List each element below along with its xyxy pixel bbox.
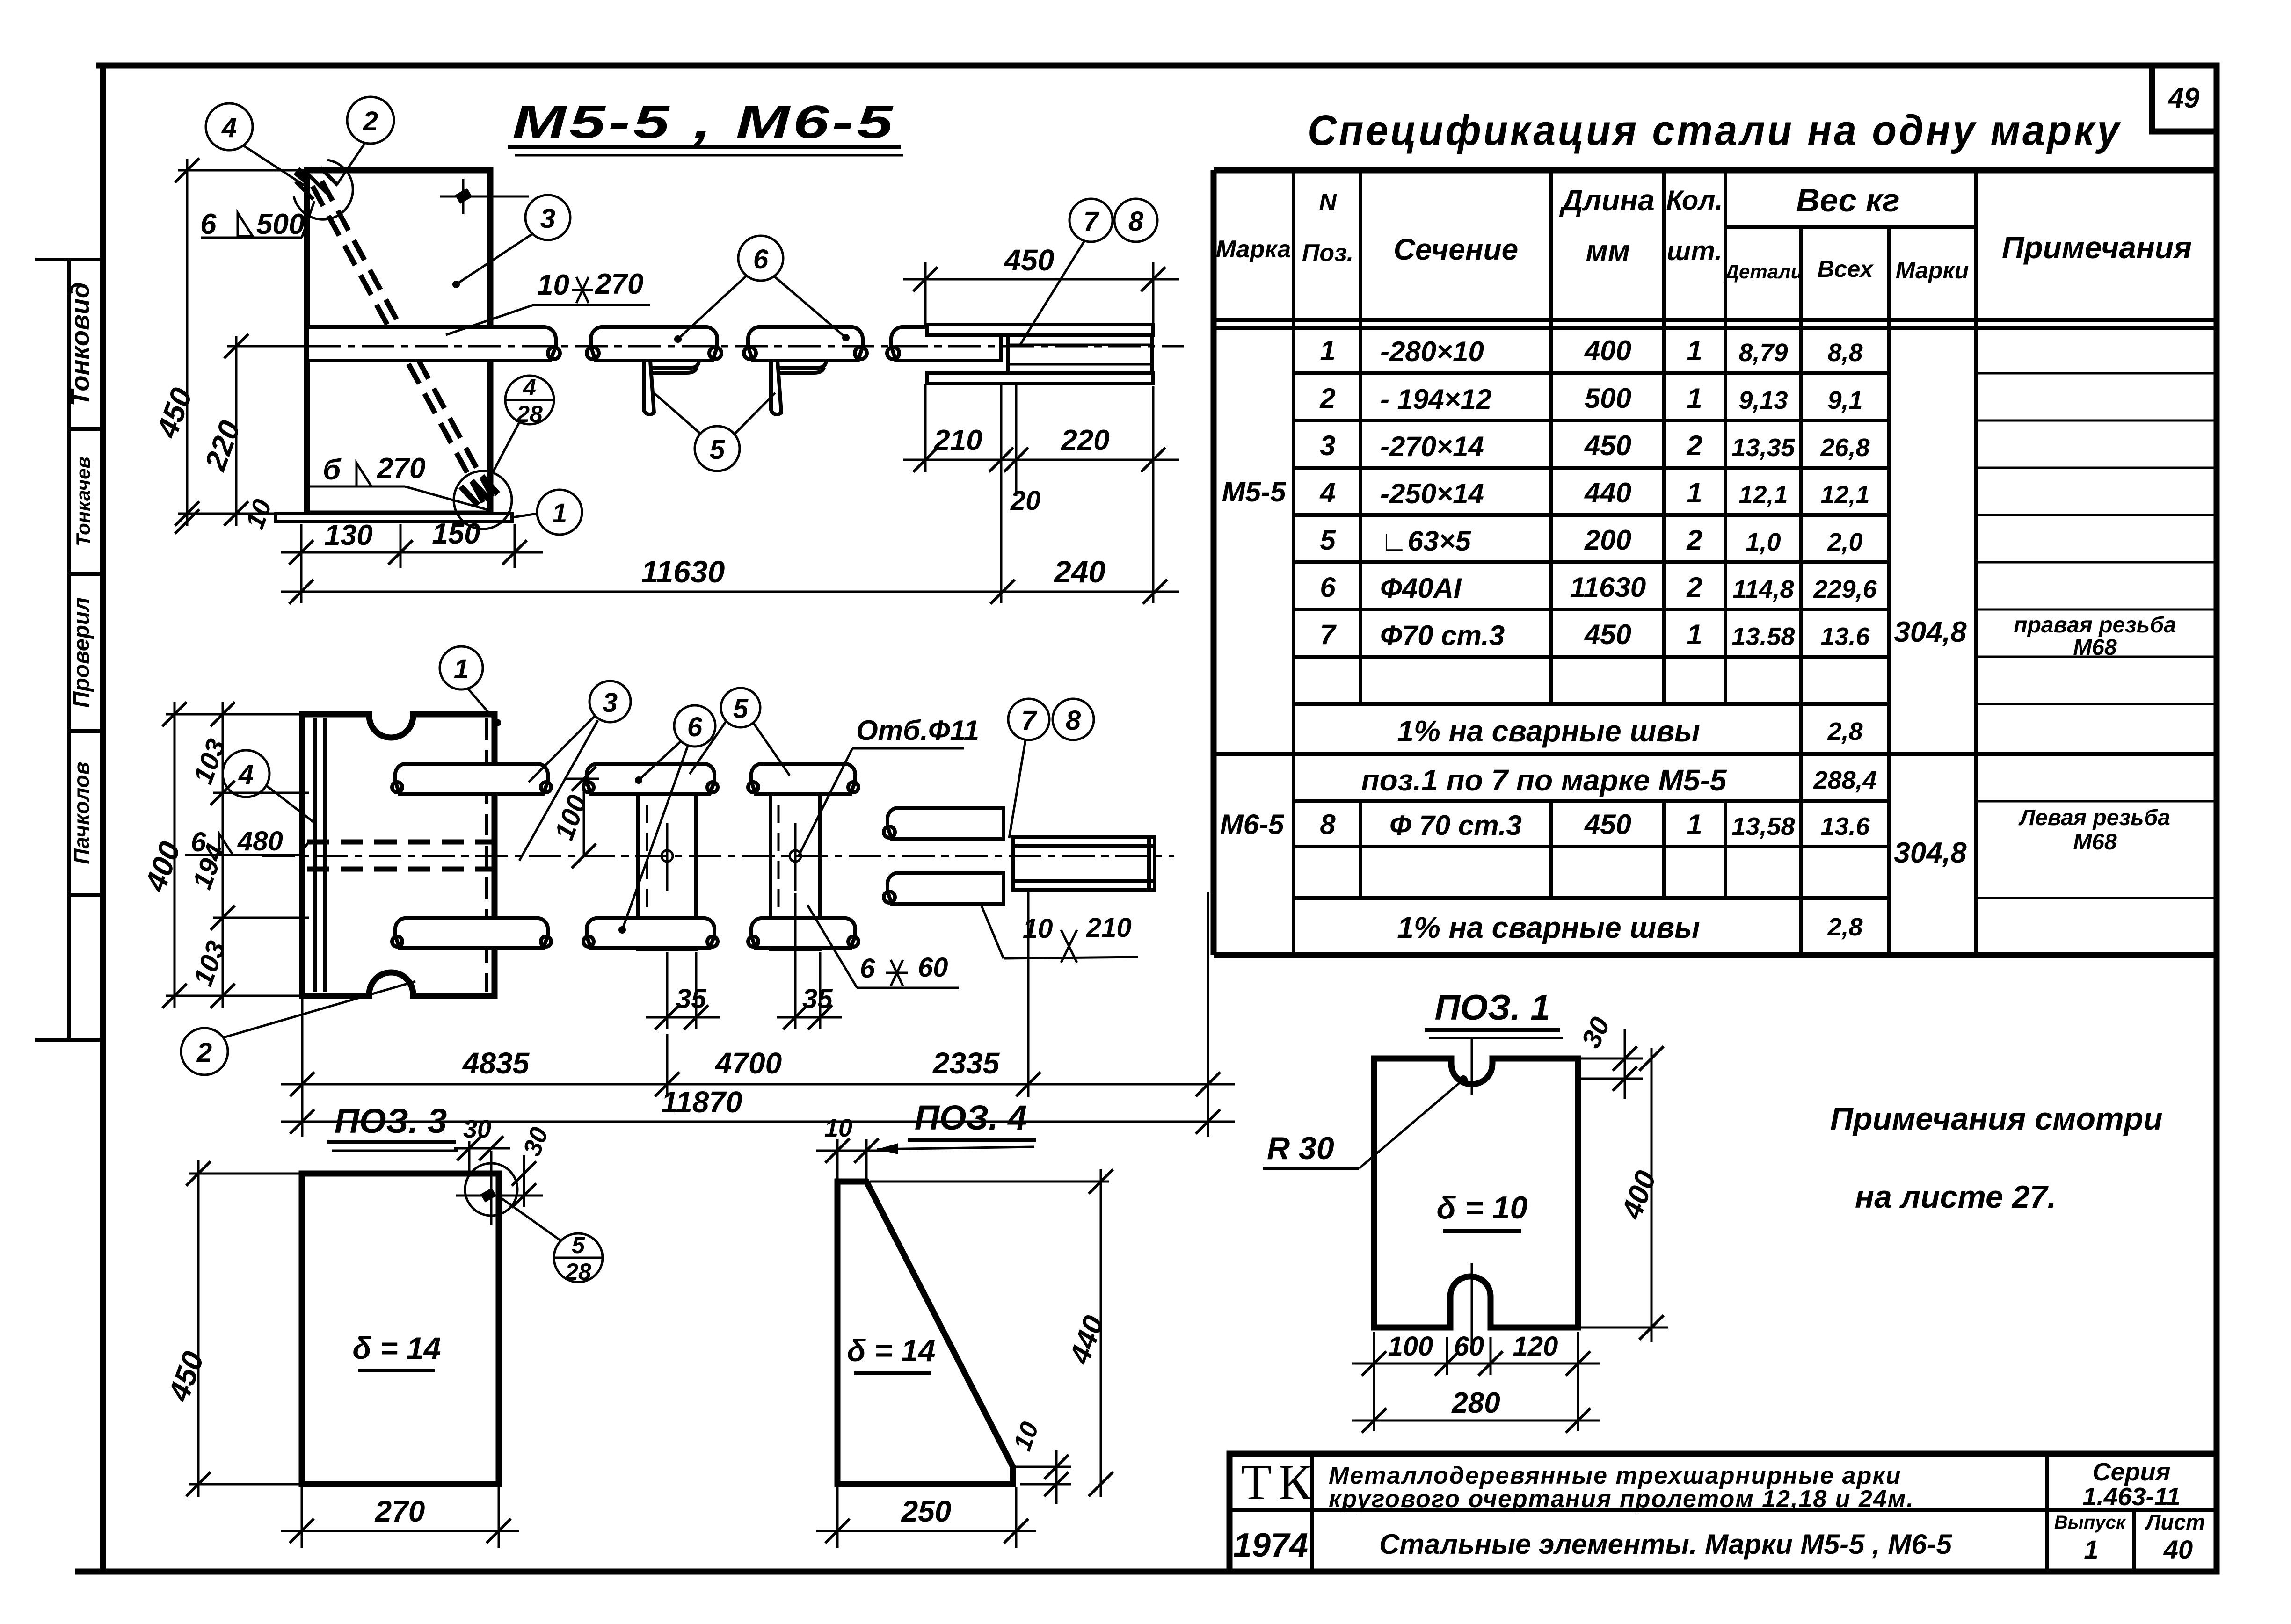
svg-text:δ = 14: δ = 14 bbox=[353, 1331, 441, 1365]
svg-text:8,8: 8,8 bbox=[1827, 339, 1862, 367]
svg-text:6: 6 bbox=[200, 208, 217, 240]
svg-text:8: 8 bbox=[1066, 705, 1081, 736]
svg-text:2: 2 bbox=[1686, 430, 1702, 461]
top view: dim 450 left bbox=[150, 158, 304, 526]
svg-text:10: 10 bbox=[537, 269, 569, 301]
poz.4 delta label bbox=[847, 1333, 936, 1373]
svg-text:Лист: Лист bbox=[2145, 1510, 2205, 1534]
svg-text:240: 240 bbox=[1053, 554, 1105, 589]
svg-text:210: 210 bbox=[1086, 913, 1132, 943]
svg-text:1: 1 bbox=[1687, 619, 1702, 650]
svg-text:49: 49 bbox=[2168, 82, 2200, 114]
page number box 49 bbox=[2152, 65, 2217, 131]
svg-text:Пачколов: Пачколов bbox=[69, 761, 94, 864]
svg-text:δ = 14: δ = 14 bbox=[847, 1333, 936, 1368]
svg-text:2: 2 bbox=[363, 106, 378, 137]
svg-text:6: 6 bbox=[1320, 572, 1336, 603]
plan view: dim 11870 bbox=[281, 1085, 1235, 1134]
svg-text:220: 220 bbox=[198, 416, 247, 475]
svg-text:450: 450 bbox=[161, 1347, 211, 1406]
svg-text:35: 35 bbox=[676, 984, 706, 1014]
svg-text:ПОЗ. 3: ПОЗ. 3 bbox=[335, 1102, 447, 1140]
svg-text:Спецификация стали на одну: Спецификация стали на одну марку bbox=[1308, 107, 2122, 154]
plan view: bottom dims 4835 4700 2335 bbox=[281, 892, 1235, 1137]
svg-text:6: 6 bbox=[860, 953, 875, 984]
svg-text:13.6: 13.6 bbox=[1820, 812, 1870, 841]
svg-text:6: 6 bbox=[753, 244, 769, 275]
plan view: hidden lines near axis bbox=[307, 842, 492, 869]
top view: weld label 6-500 bbox=[200, 201, 314, 240]
top view: balloon 5 bbox=[652, 391, 775, 471]
poz.1 delta label bbox=[1437, 1190, 1528, 1231]
svg-text:450: 450 bbox=[1004, 243, 1055, 277]
svg-text:10: 10 bbox=[824, 1114, 852, 1142]
svg-text:-250×14: -250×14 bbox=[1380, 478, 1484, 509]
poz.3 dims 30 30 bbox=[454, 1115, 554, 1208]
svg-text:1.463-11: 1.463-11 bbox=[2082, 1483, 2180, 1511]
svg-text:Серия: Серия bbox=[2093, 1458, 2171, 1486]
svg-text:ПОЗ. 1: ПОЗ. 1 bbox=[1434, 988, 1550, 1028]
svg-text:220: 220 bbox=[1061, 424, 1109, 457]
plan view: weld label 6-60 bbox=[807, 905, 959, 988]
top view: balloon 4/28 bbox=[490, 374, 554, 477]
svg-text:ПОЗ. 4: ПОЗ. 4 bbox=[915, 1098, 1027, 1137]
svg-text:2: 2 bbox=[1319, 383, 1335, 414]
svg-text:Всех: Всех bbox=[1818, 256, 1874, 282]
svg-text:1: 1 bbox=[1687, 809, 1702, 840]
svg-text:М68: М68 bbox=[2073, 635, 2117, 660]
svg-text:4: 4 bbox=[221, 113, 237, 143]
svg-text:Ф 70 ст.3: Ф 70 ст.3 bbox=[1389, 810, 1522, 841]
svg-text:2: 2 bbox=[1686, 572, 1702, 603]
plan view: upper rod pieces bbox=[392, 764, 858, 794]
svg-text:30: 30 bbox=[518, 1124, 554, 1160]
top view: weld hatch bottom (in detail circle) bbox=[461, 476, 498, 505]
svg-text:304,8: 304,8 bbox=[1894, 616, 1967, 648]
top view: weld hatch top-left bbox=[294, 160, 353, 219]
svg-text:4: 4 bbox=[523, 374, 536, 400]
svg-text:4: 4 bbox=[1319, 477, 1335, 508]
plan view: rod poz.7 upper stub bbox=[884, 808, 1004, 839]
poz.3 dim 450 bbox=[161, 1160, 299, 1497]
top view: gusset plate poz.3 bbox=[307, 170, 490, 514]
svg-text:440: 440 bbox=[1063, 1312, 1111, 1369]
svg-text:шт.: шт. bbox=[1667, 236, 1723, 266]
svg-text:Проверил: Проверил bbox=[69, 597, 94, 708]
plan view: balloon 3 bbox=[519, 681, 631, 861]
svg-text:270: 270 bbox=[595, 268, 643, 300]
svg-text:4: 4 bbox=[238, 760, 254, 790]
poz.4 dim 440 bbox=[870, 1169, 1113, 1497]
svg-text:35: 35 bbox=[802, 984, 833, 1014]
svg-text:11870: 11870 bbox=[661, 1085, 742, 1119]
svg-text:R 30: R 30 bbox=[1267, 1131, 1334, 1166]
svg-text:450: 450 bbox=[1584, 430, 1631, 461]
svg-text:3: 3 bbox=[540, 203, 555, 234]
svg-text:мм: мм bbox=[1586, 234, 1630, 268]
top view: threaded rod poz.7/8 right bbox=[1008, 335, 1152, 373]
svg-text:7: 7 bbox=[1021, 705, 1038, 736]
top view: balloon 4 bbox=[206, 103, 304, 185]
top view: strip poz.1 bbox=[276, 514, 512, 522]
svg-text:М5-5: М5-5 bbox=[1222, 476, 1287, 507]
svg-text:270: 270 bbox=[375, 1494, 425, 1528]
svg-text:500: 500 bbox=[256, 208, 305, 240]
svg-text:100: 100 bbox=[549, 791, 593, 844]
plan view: flange plate edge lines bbox=[315, 718, 487, 992]
plan view: dim 400 and 103/194/103 bbox=[138, 702, 309, 1008]
svg-text:26,8: 26,8 bbox=[1820, 434, 1869, 462]
svg-text:1: 1 bbox=[1687, 335, 1702, 366]
svg-text:60: 60 bbox=[1454, 1331, 1484, 1362]
svg-text:13,58: 13,58 bbox=[1731, 812, 1795, 841]
svg-text:1% на сварные швы: 1% на сварные швы bbox=[1397, 714, 1700, 748]
svg-text:5: 5 bbox=[572, 1232, 585, 1258]
svg-text:1: 1 bbox=[1687, 383, 1702, 414]
svg-text:1,0: 1,0 bbox=[1746, 528, 1781, 556]
poz.1 dim 30 top bbox=[1576, 1013, 1643, 1099]
svg-text:120: 120 bbox=[1513, 1331, 1558, 1362]
svg-text:∟63×5: ∟63×5 bbox=[1380, 525, 1472, 557]
plan view: balloon 6 plan bbox=[618, 705, 715, 934]
svg-text:2,0: 2,0 bbox=[1827, 528, 1862, 556]
svg-text:10: 10 bbox=[240, 495, 277, 533]
svg-text:450: 450 bbox=[1584, 809, 1631, 840]
svg-text:210: 210 bbox=[933, 424, 982, 457]
top view: dim 10 strip bbox=[175, 495, 277, 534]
svg-text:правая резьба: правая резьба bbox=[2014, 613, 2176, 638]
top view: dim 450 right bbox=[903, 243, 1179, 327]
svg-text:500: 500 bbox=[1585, 383, 1631, 414]
title block bbox=[1229, 1454, 2217, 1572]
svg-text:5: 5 bbox=[1320, 524, 1336, 556]
svg-text:7: 7 bbox=[1320, 619, 1337, 650]
top view: coupler sleeve plates bbox=[927, 325, 1153, 384]
svg-text:480: 480 bbox=[237, 826, 283, 856]
top view: balloon 2 bbox=[338, 97, 394, 183]
title M5-5, M6-5 bbox=[508, 96, 903, 155]
spec table grid bbox=[1214, 170, 2217, 955]
svg-text:2,8: 2,8 bbox=[1827, 718, 1862, 746]
svg-text:на листе 27.: на листе 27. bbox=[1855, 1179, 2056, 1215]
svg-text:Марки: Марки bbox=[1896, 257, 1969, 283]
top view: balloons 7 8 bbox=[1020, 199, 1157, 345]
svg-text:440: 440 bbox=[1584, 477, 1631, 508]
top view: rod poz.7 segment 4 bbox=[887, 327, 1001, 361]
svg-text:12,1: 12,1 bbox=[1820, 481, 1869, 509]
plan view: dims 35 35 bbox=[646, 893, 842, 1029]
svg-text:30: 30 bbox=[463, 1115, 491, 1143]
top view: rod poz.6 segment 2 bbox=[587, 327, 721, 361]
plan view: balloon 4 bbox=[223, 750, 316, 824]
svg-text:-270×14: -270×14 bbox=[1380, 431, 1484, 462]
svg-text:- 194×12: - 194×12 bbox=[1380, 384, 1492, 415]
svg-text:М6-5: М6-5 bbox=[1220, 809, 1285, 840]
svg-text:40: 40 bbox=[2163, 1535, 2193, 1564]
poz.4 detail title bbox=[877, 1098, 1036, 1154]
svg-text:2335: 2335 bbox=[932, 1046, 1000, 1080]
svg-text:1: 1 bbox=[454, 654, 469, 684]
signature strip bbox=[35, 260, 103, 1040]
svg-text:450: 450 bbox=[150, 384, 199, 443]
svg-text:Тонкачев: Тонкачев bbox=[72, 457, 94, 546]
svg-text:400: 400 bbox=[138, 837, 187, 897]
poz.3 hole detail circle bbox=[456, 1151, 543, 1225]
svg-text:2: 2 bbox=[1686, 524, 1702, 556]
top view: balloon 6 bbox=[674, 236, 850, 343]
svg-text:1: 1 bbox=[1687, 477, 1702, 508]
top view: rod poz.6 segment 3 bbox=[744, 327, 867, 361]
poz.3 plate bbox=[302, 1174, 499, 1484]
svg-text:8,79: 8,79 bbox=[1738, 339, 1788, 367]
plan view: balloon 5 bbox=[690, 688, 790, 776]
svg-text:4700: 4700 bbox=[714, 1046, 782, 1080]
svg-text:2: 2 bbox=[196, 1037, 212, 1068]
svg-text:Кол.: Кол. bbox=[1666, 185, 1723, 216]
svg-text:9,13: 9,13 bbox=[1738, 386, 1788, 414]
svg-text:9,1: 9,1 bbox=[1827, 386, 1862, 414]
svg-text:Поз.: Поз. bbox=[1302, 239, 1353, 267]
svg-text:1: 1 bbox=[552, 498, 567, 529]
top view: dim 220 left bbox=[198, 334, 304, 526]
svg-text:Длина: Длина bbox=[1559, 183, 1654, 217]
svg-text:Сечение: Сечение bbox=[1394, 232, 1518, 266]
svg-text:2,8: 2,8 bbox=[1827, 913, 1862, 941]
plan view: coupler bbox=[1013, 837, 1155, 890]
plan view: clamp plate A bbox=[638, 774, 696, 950]
svg-text:5: 5 bbox=[710, 435, 725, 465]
plan view: label Otb F11 bbox=[798, 715, 979, 857]
poz.1 dim 280 bbox=[1352, 1387, 1600, 1433]
svg-text:229,6: 229,6 bbox=[1813, 575, 1877, 603]
svg-text:450: 450 bbox=[1584, 619, 1631, 650]
svg-text:1: 1 bbox=[1320, 335, 1335, 366]
svg-text:4835: 4835 bbox=[462, 1046, 530, 1080]
poz.1 R30 label bbox=[1263, 1075, 1468, 1168]
svg-text:60: 60 bbox=[918, 952, 948, 983]
svg-text:δ = 10: δ = 10 bbox=[1437, 1190, 1528, 1225]
svg-text:Тонковид: Тонковид bbox=[65, 282, 95, 406]
table rows text bbox=[1320, 335, 1862, 367]
poz.1 detail title bbox=[1425, 988, 1563, 1038]
svg-text:Отб.Ф11: Отб.Ф11 bbox=[856, 715, 979, 746]
svg-text:13.6: 13.6 bbox=[1820, 623, 1870, 651]
svg-text:кругового очертания пролетом: кругового очертания пролетом 12,18 и 24м… bbox=[1329, 1486, 1914, 1513]
svg-text:13.58: 13.58 bbox=[1731, 623, 1795, 651]
svg-text:Левая резьба: Левая резьба bbox=[2018, 805, 2170, 830]
svg-text:12,1: 12,1 bbox=[1738, 481, 1788, 509]
poz.1 dims bottom 100 60 120 bbox=[1352, 1331, 1600, 1431]
svg-text:Вес кг: Вес кг bbox=[1796, 182, 1900, 218]
svg-text:Марка: Марка bbox=[1216, 236, 1291, 263]
top view: hidden diagonal poz.4 bbox=[313, 181, 492, 504]
svg-text:6: 6 bbox=[687, 712, 703, 742]
top view: hole cross on plate bbox=[440, 179, 529, 214]
svg-text:114,8: 114,8 bbox=[1732, 575, 1794, 603]
svg-text:Стальные элементы. Марки М5: Стальные элементы. Марки М5-5 , М6-5 bbox=[1379, 1529, 1953, 1560]
svg-text:М68: М68 bbox=[2073, 830, 2117, 855]
top view: balloon 3 bbox=[452, 195, 570, 288]
top view: balloon 1 bbox=[513, 490, 582, 535]
top view: dim 11630 and 240 bbox=[281, 554, 1179, 604]
plan view: plate poz.1 with notches bbox=[302, 714, 495, 996]
svg-text:3: 3 bbox=[603, 688, 618, 718]
svg-text:13,35: 13,35 bbox=[1731, 434, 1795, 462]
svg-text:288,4: 288,4 bbox=[1813, 766, 1876, 794]
svg-text:304,8: 304,8 bbox=[1894, 837, 1967, 869]
svg-text:11630: 11630 bbox=[641, 554, 725, 589]
svg-text:Примечания: Примечания bbox=[2002, 230, 2192, 265]
top view: dims 210 220 20 bbox=[903, 384, 1179, 603]
svg-text:-280×10: -280×10 bbox=[1380, 336, 1484, 367]
poz.4 plate bbox=[837, 1182, 1013, 1484]
svg-text:20: 20 bbox=[1010, 486, 1041, 516]
svg-text:103: 103 bbox=[188, 937, 232, 990]
svg-text:Выпуск: Выпуск bbox=[2054, 1512, 2126, 1533]
spec table title bbox=[1308, 107, 2122, 154]
svg-text:150: 150 bbox=[432, 518, 480, 550]
poz.3 delta label bbox=[353, 1331, 441, 1370]
svg-text:270: 270 bbox=[377, 452, 425, 485]
poz.4 dim 250 bbox=[816, 1487, 1036, 1548]
plan view: clamp plate B bbox=[771, 774, 820, 950]
top view: angle clip poz.5 first bbox=[644, 361, 699, 414]
poz.1 plate bbox=[1374, 1039, 1578, 1345]
svg-text:N: N bbox=[1319, 189, 1337, 216]
plan view: dim 100 bbox=[549, 767, 599, 868]
poz.3 detail title bbox=[327, 1102, 458, 1151]
top view: weld label 10-270 bbox=[446, 268, 650, 335]
plan view: lower rod pieces bbox=[392, 918, 858, 948]
svg-text:100: 100 bbox=[1388, 1331, 1433, 1362]
notes text bbox=[1830, 1101, 2163, 1215]
svg-text:1974: 1974 bbox=[1233, 1527, 1308, 1564]
plan view: balloon 2 bbox=[181, 981, 415, 1075]
svg-text:400: 400 bbox=[1615, 1167, 1663, 1224]
svg-text:1: 1 bbox=[2084, 1535, 2098, 1564]
svg-text:8: 8 bbox=[1320, 809, 1336, 840]
poz.4 dim 10 top bbox=[816, 1114, 889, 1179]
top view: centerline bbox=[255, 345, 1184, 348]
svg-text:7: 7 bbox=[1084, 206, 1100, 237]
top view: weld label b-270 bbox=[309, 452, 491, 511]
plan view: balloons 7 8 bbox=[1008, 699, 1094, 838]
svg-text:10: 10 bbox=[1008, 1418, 1044, 1454]
plan view: balloon 1 bbox=[440, 646, 501, 726]
svg-text:280: 280 bbox=[1451, 1387, 1500, 1419]
plan view: weld label 6-480 bbox=[185, 826, 309, 857]
svg-text:Ф40АI: Ф40АI bbox=[1380, 573, 1462, 604]
plan view: weld label 10x210 bbox=[981, 904, 1138, 963]
svg-text:11630: 11630 bbox=[1570, 572, 1646, 603]
svg-text:Детали: Детали bbox=[1724, 261, 1803, 283]
svg-text:3: 3 bbox=[1320, 430, 1335, 461]
poz.3 dim 270 bbox=[281, 1487, 519, 1548]
top view: angle clip poz.5 second bbox=[771, 361, 826, 414]
svg-text:6: 6 bbox=[191, 827, 206, 857]
svg-text:250: 250 bbox=[901, 1494, 952, 1528]
svg-text:б: б bbox=[323, 454, 342, 486]
poz.1 dim 400 bbox=[1581, 1046, 1668, 1342]
top view: rod poz.6 segment 1 bbox=[307, 327, 560, 361]
plan view: rod poz.8 lower stub bbox=[884, 873, 1004, 904]
svg-text:130: 130 bbox=[324, 519, 372, 551]
svg-text:400: 400 bbox=[1584, 335, 1631, 366]
svg-text:Ф70 ст.3: Ф70 ст.3 bbox=[1380, 620, 1505, 651]
svg-text:30: 30 bbox=[1576, 1013, 1616, 1053]
svg-text:28: 28 bbox=[565, 1259, 591, 1285]
svg-text:8: 8 bbox=[1128, 206, 1144, 237]
svg-text:Примечания смотри: Примечания смотри bbox=[1830, 1101, 2163, 1137]
svg-text:5: 5 bbox=[733, 694, 749, 724]
poz.3 balloon 5/28 bbox=[502, 1198, 603, 1285]
svg-text:М5-5 , М6-5: М5-5 , М6-5 bbox=[512, 96, 896, 148]
plan view: centerline bbox=[262, 855, 1174, 857]
svg-text:200: 200 bbox=[1584, 524, 1631, 556]
svg-text:ТК: ТК bbox=[1241, 1455, 1318, 1510]
top view: detail circle at diagonal foot bbox=[454, 471, 512, 529]
svg-text:1% на сварные швы: 1% на сварные швы bbox=[1397, 911, 1700, 944]
poz.4 dim 10 bottom bbox=[1008, 1418, 1071, 1504]
table header text bbox=[1216, 182, 2192, 283]
svg-text:поз.1 по 7 по марке М5-5: поз.1 по 7 по марке М5-5 bbox=[1361, 763, 1727, 797]
top view: dims 130 150 bbox=[281, 518, 543, 568]
